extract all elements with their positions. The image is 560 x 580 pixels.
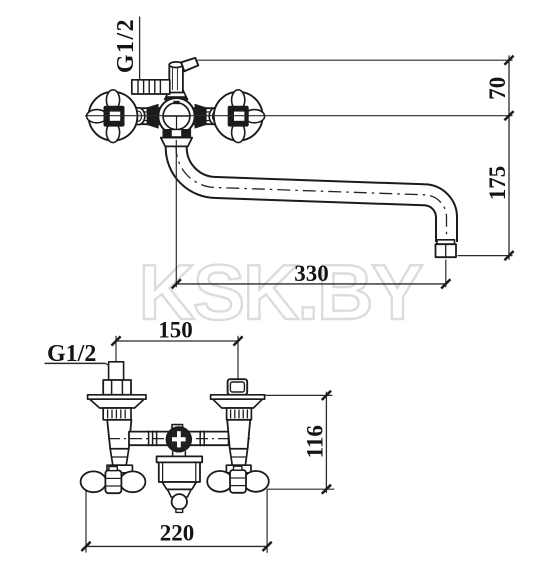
svg-text:70: 70 — [485, 77, 510, 100]
spout tube inner white — [176, 131, 446, 243]
extension line from lever — [198, 59, 513, 61]
svg-text:175: 175 — [485, 166, 510, 201]
left dark cone — [147, 104, 159, 129]
left handle petal N — [106, 90, 119, 110]
diverter top ellipse — [169, 62, 183, 68]
left handle hub — [104, 106, 125, 127]
bar dashed centerline — [108, 438, 250, 440]
diverter stub above hub — [172, 425, 183, 432]
hub-to-spoutbox connector — [172, 451, 174, 456]
left bonnet — [110, 449, 129, 465]
central body outer circle — [158, 98, 194, 134]
tick — [322, 485, 331, 494]
right threaded ring — [227, 408, 252, 420]
central body inner circle — [163, 103, 190, 130]
center axis line — [85, 115, 513, 117]
right bonnet — [230, 449, 248, 465]
right handle petal E — [244, 110, 264, 123]
116 extension bottom — [267, 488, 335, 490]
tick — [322, 391, 331, 400]
collar below body — [163, 129, 192, 137]
330 dimension line — [176, 283, 446, 285]
svg-text:G1/2: G1/2 — [113, 18, 139, 73]
150 extension right — [237, 336, 239, 380]
left handle outer circle — [89, 92, 138, 141]
tick — [111, 336, 120, 345]
right handle petal S — [232, 122, 245, 142]
left flange skirt — [90, 399, 144, 408]
220 dimension line — [86, 545, 267, 547]
left connector ring — [132, 108, 145, 125]
spout ball — [172, 494, 187, 509]
left hex nut — [103, 380, 131, 395]
left threaded ring — [103, 408, 131, 420]
tick — [81, 542, 90, 551]
diverter column — [169, 65, 183, 93]
tick — [172, 279, 181, 288]
vertical dimension line 70/175 — [508, 55, 510, 259]
tick — [441, 279, 450, 288]
tick — [233, 336, 242, 345]
bar between valves — [129, 432, 229, 446]
body bar — [130, 108, 224, 124]
tick — [263, 542, 272, 551]
right flange skirt — [213, 399, 263, 408]
left handle petal S — [106, 122, 119, 142]
spout dashed centerline — [176, 144, 446, 240]
svg-text:330: 330 — [294, 261, 329, 286]
diverter lever — [181, 58, 198, 71]
left gland nut — [107, 465, 132, 473]
150 extension left — [115, 336, 117, 362]
220 extension right — [266, 489, 268, 553]
150 dimension line — [116, 340, 238, 342]
G1/2 underline leader — [45, 362, 106, 364]
right inlet square nut — [228, 379, 248, 395]
right handle hub — [228, 106, 249, 127]
aerator ring — [437, 240, 455, 244]
330 extension right — [445, 260, 447, 288]
svg-text:220: 220 — [160, 521, 195, 546]
spout connection rim — [157, 456, 203, 462]
left inlet pipe — [109, 362, 124, 380]
tick — [504, 111, 513, 120]
right handle petal N — [232, 90, 245, 110]
hose fitting (threaded) — [132, 80, 170, 94]
right dark cone — [195, 104, 207, 129]
right flange plate — [211, 395, 265, 399]
central diverter hub — [167, 427, 191, 451]
bar ring left — [148, 431, 150, 447]
right handle outer circle — [214, 92, 263, 141]
svg-text:150: 150 — [158, 318, 193, 343]
right valve body — [227, 420, 250, 449]
collar nut — [161, 138, 192, 147]
spout tube outline — [176, 132, 446, 242]
aerator body — [436, 244, 457, 257]
G1/2 leader (top view) — [139, 17, 141, 80]
spout neck — [167, 489, 191, 497]
svg-text:116: 116 — [303, 425, 328, 458]
left handle petal W — [87, 110, 107, 123]
tick — [504, 56, 513, 65]
aerator divider — [445, 245, 447, 257]
left cross handle — [81, 471, 107, 492]
220 extension left — [85, 491, 87, 553]
left flange plate — [88, 395, 146, 399]
330 extension left — [175, 140, 177, 287]
extension line from aerator bottom — [458, 255, 513, 257]
right cross handle — [207, 471, 233, 492]
diverter column base — [165, 90, 188, 100]
body bar inner neck lines — [134, 111, 220, 113]
right connector ring — [209, 108, 222, 125]
spout connection taper — [162, 482, 196, 489]
116 extension top — [265, 394, 333, 396]
left valve body — [107, 420, 131, 449]
right gland nut — [226, 465, 251, 473]
spout connection body — [159, 462, 200, 482]
116 dimension line — [325, 392, 327, 493]
bar ring right — [199, 431, 201, 447]
tick — [504, 251, 513, 260]
